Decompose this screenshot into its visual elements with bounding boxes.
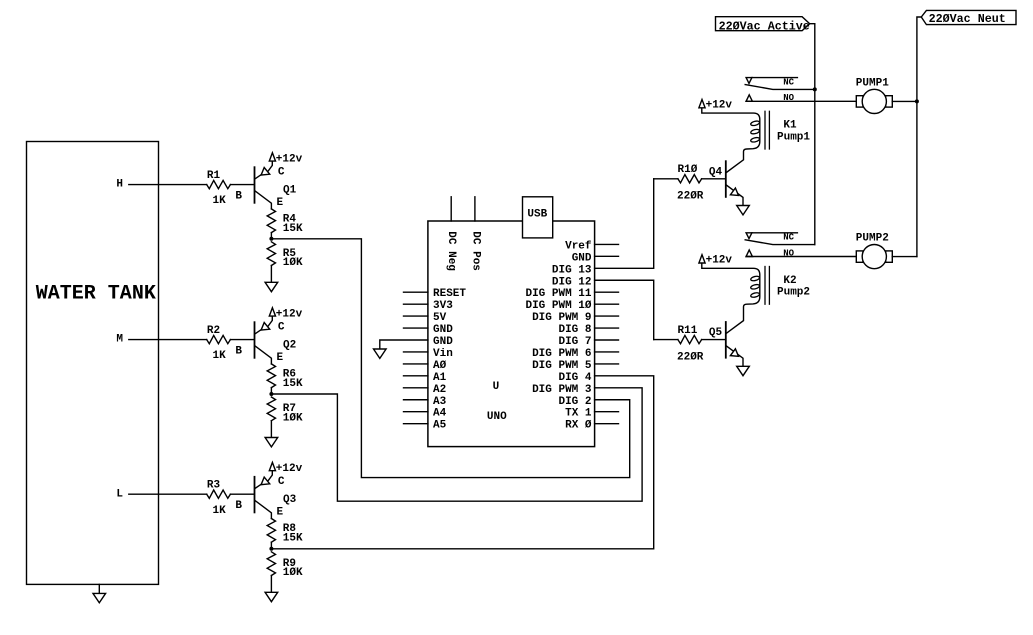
- resistor R8: [267, 519, 275, 543]
- svg-text:A4: A4: [433, 408, 447, 420]
- wire R8 to junction: [270, 542, 272, 549]
- svg-text:+12v: +12v: [276, 309, 303, 321]
- Q1 collector arrow: [261, 168, 270, 176]
- pin DC Pos: [474, 197, 476, 221]
- wire M to R2: [129, 339, 207, 341]
- svg-text:+12v: +12v: [706, 255, 733, 267]
- svg-text:U: U: [493, 381, 500, 393]
- pin A5 stub: [404, 423, 428, 425]
- wire H to R1: [129, 184, 207, 186]
- pin DIG 13 wire to R10: [595, 179, 654, 268]
- pin AØ stub: [404, 363, 428, 365]
- pin TX 1 stub: [595, 411, 619, 413]
- svg-text:+12v: +12v: [276, 154, 303, 166]
- wire L divider to DIG 4: [271, 376, 653, 549]
- wire L to R3: [129, 493, 207, 495]
- resistor R3: [207, 490, 231, 498]
- svg-text:DIG 12: DIG 12: [552, 276, 592, 288]
- pin RESET stub: [404, 291, 428, 293]
- svg-text:TX 1: TX 1: [565, 408, 592, 420]
- ground below R5: [265, 282, 278, 291]
- resistor R6: [267, 364, 275, 388]
- power +12v at Q3 collector: [269, 462, 275, 470]
- svg-text:22ØR: 22ØR: [677, 191, 704, 203]
- resistor R4: [267, 209, 275, 233]
- resistor R7: [267, 397, 275, 421]
- svg-text:R3: R3: [207, 480, 221, 492]
- svg-text:NC: NC: [783, 233, 794, 243]
- wire R9 to ground: [270, 576, 272, 593]
- Q3 collector lead: [255, 484, 261, 488]
- pin 3V3 stub: [404, 303, 428, 305]
- svg-text:15K: 15K: [283, 378, 303, 390]
- K1 common arm to active rail: [745, 85, 815, 90]
- svg-text:1ØK: 1ØK: [283, 257, 303, 269]
- wire R3 to Q3 base: [230, 493, 253, 495]
- power +12v at relay K2 coil: [699, 255, 705, 263]
- pin DC Neg: [450, 197, 452, 221]
- pin A1 stub: [404, 375, 428, 377]
- resistor R11: [678, 335, 702, 343]
- pin DIG PWM 11 stub: [595, 291, 619, 293]
- svg-text:C: C: [278, 476, 285, 488]
- svg-text:B: B: [235, 345, 242, 357]
- svg-text:DIG 2: DIG 2: [558, 396, 591, 408]
- svg-text:15K: 15K: [283, 532, 303, 544]
- Q5 emitter lead: [726, 346, 743, 367]
- power +12v at relay K1 coil: [699, 100, 705, 108]
- svg-text:C: C: [278, 322, 285, 334]
- svg-text:USB: USB: [527, 209, 547, 221]
- svg-text:H: H: [116, 179, 123, 191]
- K2 common arm from active rail: [745, 240, 815, 245]
- motor PUMP2 terminals: [856, 251, 863, 262]
- svg-text:RX Ø: RX Ø: [565, 420, 592, 432]
- transistor Q4 body bar: [725, 161, 727, 197]
- svg-text:A2: A2: [433, 384, 446, 396]
- svg-text:1K: 1K: [213, 195, 227, 207]
- wire R1 to Q1 base: [230, 184, 253, 186]
- wire M divider to DIG PWM 3: [271, 388, 642, 501]
- Q2 collector arrow: [261, 323, 270, 331]
- svg-text:B: B: [235, 190, 242, 202]
- Q5 emitter arrow: [730, 349, 738, 357]
- net flag 220Vac Neut: [921, 10, 1016, 24]
- svg-text:1ØK: 1ØK: [283, 567, 303, 579]
- svg-text:L: L: [116, 488, 123, 500]
- motor PUMP1 body: [862, 89, 886, 113]
- svg-text:E: E: [277, 197, 284, 209]
- junction dot on active rail: [813, 87, 817, 91]
- Q4 emitter lead: [726, 185, 743, 206]
- pin A2 stub: [404, 387, 428, 389]
- svg-text:1K: 1K: [213, 505, 227, 517]
- svg-text:1ØK: 1ØK: [283, 412, 303, 424]
- svg-text:R1: R1: [207, 170, 221, 182]
- svg-text:+12v: +12v: [276, 463, 303, 475]
- pin DIG PWM 6 stub: [595, 351, 619, 353]
- ground below R7: [265, 438, 278, 447]
- Q3 collector arrow: [261, 477, 270, 485]
- svg-text:Pump1: Pump1: [777, 132, 810, 144]
- svg-text:+12v: +12v: [706, 100, 733, 112]
- svg-text:GND: GND: [433, 324, 453, 336]
- pin DIG PWM 5 stub: [595, 363, 619, 365]
- svg-text:Q1: Q1: [283, 185, 297, 197]
- svg-text:PUMP1: PUMP1: [856, 77, 889, 89]
- svg-text:B: B: [235, 500, 242, 512]
- Q1 emitter lead: [255, 191, 272, 209]
- K1 NO contact triangle: [746, 95, 752, 102]
- svg-text:5V: 5V: [433, 312, 447, 324]
- svg-text:DIG PWM 1Ø: DIG PWM 1Ø: [525, 300, 591, 312]
- pin Vref stub: [595, 243, 619, 245]
- transistor Q5 body bar: [725, 322, 727, 358]
- pin DIG 7 stub: [595, 339, 619, 341]
- junction dot H divider: [269, 237, 273, 241]
- pin GND wire to ground: [380, 340, 428, 349]
- svg-text:A5: A5: [433, 420, 447, 432]
- transistor Q2 body bar: [254, 322, 256, 358]
- svg-text:AØ: AØ: [433, 360, 447, 372]
- svg-text:DIG PWM 6: DIG PWM 6: [532, 348, 591, 360]
- wire H divider to DIG 2: [271, 239, 629, 478]
- motor PUMP2 body: [862, 245, 886, 269]
- pin Vin stub: [404, 351, 428, 353]
- svg-text:Q4: Q4: [709, 166, 723, 178]
- relay K2 coil loops: [750, 275, 760, 281]
- svg-text:15K: 15K: [283, 223, 303, 235]
- svg-text:GND: GND: [433, 336, 453, 348]
- pin DIG 8 stub: [595, 327, 619, 329]
- pin 5V stub: [404, 315, 428, 317]
- svg-text:R11: R11: [678, 325, 698, 337]
- svg-text:DC Pos: DC Pos: [469, 231, 481, 271]
- svg-text:DIG 7: DIG 7: [558, 336, 591, 348]
- net flag 220Vac Active: [716, 17, 810, 31]
- transistor Q1 body bar: [254, 167, 256, 203]
- svg-text:Q3: Q3: [283, 494, 297, 506]
- relay K2 core bars: [764, 267, 766, 305]
- junction dot L divider: [269, 547, 273, 551]
- svg-text:22ØVac Neut: 22ØVac Neut: [929, 12, 1006, 26]
- svg-text:E: E: [277, 352, 284, 364]
- K1 NC contact stub: [752, 77, 798, 79]
- svg-text:A1: A1: [433, 372, 447, 384]
- K1 NC contact triangle: [746, 78, 752, 84]
- svg-text:PUMP2: PUMP2: [856, 233, 889, 245]
- K2 NC contact stub: [752, 232, 798, 234]
- Q3 emitter lead: [255, 500, 272, 518]
- svg-text:Pump2: Pump2: [777, 287, 810, 299]
- wire R7 to ground: [270, 421, 272, 438]
- K1 NO wire to PUMP1: [746, 100, 856, 102]
- junction dot M divider: [269, 392, 273, 396]
- wire to resistor R10: [654, 178, 678, 180]
- 220Vac Neut rail: [917, 17, 921, 257]
- relay K1 coil loops: [750, 120, 760, 126]
- pin DIG 12 wire to R11: [595, 280, 654, 339]
- svg-text:22ØVac Active: 22ØVac Active: [719, 19, 810, 33]
- resistor R10: [678, 175, 702, 183]
- svg-text:WATER TANK: WATER TANK: [36, 283, 156, 306]
- svg-text:1K: 1K: [213, 350, 227, 362]
- svg-text:R1Ø: R1Ø: [678, 164, 698, 176]
- Q2 collector lead: [255, 330, 261, 334]
- svg-text:K1: K1: [783, 120, 797, 132]
- wire R4 to junction: [270, 233, 272, 239]
- svg-text:Vin: Vin: [433, 348, 453, 360]
- pin DIG PWM 1Ø stub: [595, 303, 619, 305]
- ground at Q4 emitter: [737, 206, 750, 215]
- wire R10 to Q4 base: [702, 178, 725, 180]
- svg-text:Vref: Vref: [565, 240, 592, 252]
- svg-text:DIG PWM 3: DIG PWM 3: [532, 384, 592, 396]
- ground at Q5 emitter: [737, 366, 750, 375]
- ground below tank: [98, 584, 100, 593]
- water tank enclosure: [27, 142, 159, 585]
- 220Vac Active rail: [810, 24, 815, 245]
- resistor R1: [207, 180, 231, 188]
- resistor R5: [267, 242, 275, 266]
- svg-text:DIG PWM 5: DIG PWM 5: [532, 360, 592, 372]
- svg-text:22ØR: 22ØR: [677, 351, 704, 363]
- svg-text:RESET: RESET: [433, 288, 466, 300]
- svg-text:GND: GND: [572, 252, 592, 264]
- svg-text:DIG 8: DIG 8: [558, 324, 591, 336]
- svg-text:DIG PWM 11: DIG PWM 11: [525, 288, 591, 300]
- wire R6 to junction: [270, 388, 272, 394]
- Arduino UNO U body: [428, 221, 595, 447]
- wire R11 to Q5 base: [702, 339, 725, 341]
- svg-text:K2: K2: [783, 275, 796, 287]
- svg-text:A3: A3: [433, 396, 447, 408]
- svg-text:DIG PWM 9: DIG PWM 9: [532, 312, 591, 324]
- motor PUMP1 terminals: [856, 96, 863, 107]
- svg-text:C: C: [278, 167, 285, 179]
- Q1 collector lead: [255, 175, 261, 179]
- wire PUMP1 to neutral rail: [892, 100, 917, 102]
- svg-text:NC: NC: [783, 78, 794, 88]
- pin A3 stub: [404, 399, 428, 401]
- Q4 emitter arrow: [730, 188, 738, 196]
- ground at GND pin: [374, 349, 387, 358]
- svg-text:DC Neg: DC Neg: [445, 231, 457, 271]
- pin A4 stub: [404, 411, 428, 413]
- Q4 collector lead to relay coil: [702, 108, 760, 173]
- wire to resistor R11: [654, 339, 678, 341]
- K2 NO wire to PUMP2: [746, 256, 856, 258]
- svg-text:Q2: Q2: [283, 340, 296, 352]
- junction dot on neutral rail: [915, 99, 919, 103]
- svg-text:M: M: [116, 334, 123, 346]
- pin RX Ø stub: [595, 423, 619, 425]
- wire PUMP2 to neutral rail: [892, 256, 917, 258]
- svg-text:E: E: [277, 507, 284, 519]
- power +12v at Q1 collector: [269, 153, 275, 161]
- wire R2 to Q2 base: [230, 339, 253, 341]
- svg-text:3V3: 3V3: [433, 300, 453, 312]
- pin DIG PWM 9 stub: [595, 315, 619, 317]
- resistor R2: [207, 335, 231, 343]
- pin GND stub: [404, 327, 428, 329]
- Q5 collector lead to relay coil: [702, 263, 760, 333]
- power +12v at Q2 collector: [269, 308, 275, 316]
- svg-text:Q5: Q5: [709, 327, 723, 339]
- svg-text:UNO: UNO: [487, 411, 507, 423]
- relay K1 core bars: [764, 111, 766, 149]
- svg-text:DIG 13: DIG 13: [552, 264, 592, 276]
- USB connector box: [523, 197, 553, 238]
- Q2 emitter lead: [255, 346, 272, 364]
- transistor Q3 body bar: [254, 477, 256, 513]
- K2 NC contact triangle: [746, 233, 752, 239]
- K2 NO contact triangle: [746, 250, 752, 257]
- resistor R9: [267, 552, 275, 576]
- svg-text:R2: R2: [207, 325, 220, 337]
- ground below R9: [265, 592, 278, 601]
- svg-text:DIG 4: DIG 4: [558, 372, 591, 384]
- pin GND stub: [595, 255, 619, 257]
- wire R5 to ground: [270, 266, 272, 283]
